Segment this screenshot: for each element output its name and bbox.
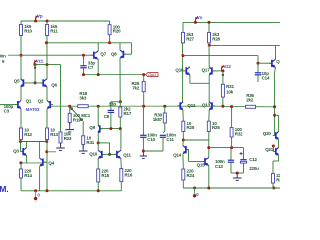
transistor Q1 — [15, 99, 32, 109]
svg-text:C12: C12 — [249, 157, 257, 162]
wire to Q18 base — [258, 62, 271, 64]
wire R20 bottom stub — [109, 35, 111, 43]
junction Vz2 node 2 — [222, 74, 224, 76]
jumper MC1 — [71, 108, 83, 121]
junction R20 bottom — [108, 41, 111, 44]
svg-text:Vz2: Vz2 — [223, 64, 231, 69]
transistor Q16 — [175, 67, 190, 75]
transistor Q2 — [38, 99, 54, 109]
wire R23 bottom stub — [60, 143, 62, 146]
wire C8 bottom stem — [110, 112, 112, 128]
resistor R23 — [59, 132, 72, 143]
wire jog to R37 — [273, 160, 279, 162]
junction C7 top — [82, 54, 85, 57]
wire C10-C11 bottom rail — [143, 150, 163, 152]
wire R14 bottom — [20, 178, 22, 191]
svg-text:Q12: Q12 — [187, 103, 196, 108]
wire Q7e down to Q9 — [97, 106, 99, 125]
transistor Q13 — [202, 102, 215, 110]
capacitor C11 — [160, 133, 177, 142]
transistor Q4 — [40, 158, 55, 166]
resistor R19 — [68, 113, 81, 123]
wire C12 bottom stem — [243, 163, 245, 173]
svg-text:Q1: Q1 — [26, 99, 32, 104]
component MC1 label — [81, 113, 91, 118]
junction R32-C13 node — [230, 146, 233, 149]
svg-text:MAT03: MAT03 — [26, 107, 40, 112]
junction Vn stem — [194, 21, 197, 24]
svg-text:Q10: Q10 — [89, 151, 98, 156]
wire R32 top stub — [231, 107, 233, 128]
transistor Q12 — [177, 102, 196, 110]
svg-text:C10: C10 — [147, 137, 155, 142]
junction R29 bottom — [142, 105, 145, 108]
transistor Q18 label — [276, 59, 280, 64]
svg-text:C8: C8 — [104, 114, 110, 119]
transistor Q17 — [202, 67, 215, 75]
capacitor C12 plus sign — [240, 152, 243, 155]
power symbol 0 left — [34, 191, 41, 201]
ground under R19 — [65, 123, 74, 132]
wire C8 top wire — [111, 101, 120, 103]
wire R16 bottom — [120, 182, 122, 191]
transistor Q20 label — [263, 131, 272, 136]
wire R17 top stub — [119, 102, 121, 107]
wire left ground rail — [21, 190, 121, 192]
svg-text:7k2: 7k2 — [132, 85, 140, 90]
wire R26 bottom — [208, 132, 210, 141]
wire Q17 base right — [213, 70, 223, 72]
svg-text:Out1: Out1 — [148, 72, 156, 77]
wire Q9 emitter down — [97, 133, 99, 143]
wire R26 to Q15 collector — [208, 140, 210, 157]
junction Q5-Q6 base rail — [34, 81, 37, 84]
svg-text:C3: C3 — [4, 109, 10, 114]
transistor Q11 — [114, 150, 132, 158]
svg-text:Q21: Q21 — [265, 147, 274, 152]
capacitor C8 ref label — [104, 114, 110, 119]
wire bias corner down — [257, 56, 259, 64]
wire C14 bottom stem — [257, 75, 259, 82]
capacitor C10 — [140, 133, 157, 142]
power symbol Vz1 — [34, 59, 44, 66]
resistor R27 — [182, 32, 195, 43]
junction Vp stem — [34, 20, 37, 23]
svg-text:R12: R12 — [24, 132, 32, 137]
wire Q8 emitter down — [119, 58, 121, 102]
power symbol Vn — [195, 15, 202, 22]
svg-text:Q3: Q3 — [13, 148, 19, 153]
svg-text:Q: Q — [276, 59, 280, 64]
transistor Q10 — [98, 150, 105, 158]
wire comp rail y147 — [209, 147, 244, 149]
junction 0 net right — [193, 187, 196, 190]
wire cap bottom rail — [231, 172, 244, 174]
svg-text:Q17: Q17 — [202, 68, 211, 73]
wire collector rail y43 — [47, 42, 132, 44]
ground under R23 — [56, 143, 65, 150]
wire out stub right — [275, 114, 279, 116]
svg-text:10k: 10k — [226, 90, 234, 95]
wire C10 bottom stem — [142, 137, 144, 151]
wire R17 bottom — [119, 117, 121, 129]
wire mirror loop down — [109, 143, 111, 155]
wire R10 to Q5 collector — [20, 36, 22, 80]
svg-text:R41: R41 — [86, 140, 94, 145]
transistor Q14 — [183, 146, 189, 154]
wire R32 bottom stub — [231, 137, 233, 148]
resistor R14 — [20, 169, 33, 178]
wire Q3 emitter rail — [21, 162, 42, 164]
wire Q8 base stub — [124, 53, 131, 55]
wire Q5 emitter to Q1 collector — [20, 87, 22, 101]
wire mirror right — [47, 151, 56, 153]
wire Q18 collector up — [275, 46, 277, 60]
wire C11 bottom stem — [162, 137, 164, 151]
svg-text:Q13: Q13 — [202, 103, 211, 108]
svg-text:100n: 100n — [215, 159, 225, 164]
transistor Q20 — [273, 131, 279, 139]
wire Vz1 down to base rail — [34, 65, 36, 83]
svg-text:R10: R10 — [24, 29, 32, 34]
junction C8 top node — [119, 100, 122, 103]
wire right tail rail — [183, 139, 209, 141]
resistor R18 — [78, 91, 88, 108]
wire Q14 emitter down — [182, 154, 184, 169]
svg-text:R11: R11 — [50, 29, 58, 34]
wire right ground rail — [183, 187, 280, 189]
wire C10 top stem — [142, 106, 144, 135]
wire Out1 rail — [84, 74, 144, 76]
junction Vz1-R11 line — [46, 63, 49, 66]
wire Q8 collector — [119, 43, 121, 50]
wire base to Q15 — [189, 161, 205, 163]
svg-text:Q6: Q6 — [51, 83, 57, 88]
svg-text:R24: R24 — [187, 173, 195, 178]
caption text M. — [0, 184, 8, 194]
power symbol 0 right — [193, 188, 199, 198]
wire feedback rail — [51, 105, 223, 107]
svg-text:R17: R17 — [124, 111, 132, 116]
resistor R15 — [97, 169, 110, 182]
transistor Q10 label — [89, 151, 98, 156]
capacitor C14 — [255, 71, 270, 80]
svg-text:Q7: Q7 — [100, 52, 106, 57]
svg-text:M.: M. — [0, 184, 8, 194]
junction Q9-Q10 node — [97, 141, 100, 144]
junction mirror base — [108, 153, 111, 156]
global label Out1 — [146, 72, 158, 77]
wire Q7 collector — [97, 43, 99, 51]
wire Q14 base down — [188, 150, 190, 162]
wire input to Q1 base — [0, 104, 17, 106]
resistor R30 — [153, 113, 167, 123]
wire bias rail y57 — [183, 55, 258, 57]
svg-text:R31: R31 — [226, 84, 234, 89]
wire Q17 emitter down — [208, 75, 210, 103]
svg-text:Q15: Q15 — [197, 162, 206, 167]
wire top rail y45 — [209, 45, 280, 47]
transistor Q15 label — [197, 162, 206, 167]
junction out node — [273, 105, 276, 108]
svg-text:2k2: 2k2 — [246, 97, 254, 102]
wire R10 top stub — [20, 21, 22, 25]
junction tail right ch — [182, 139, 185, 142]
transistor Q14 label — [173, 153, 182, 158]
junction R11 bottom rail — [45, 41, 48, 44]
junction 0 net left — [34, 189, 37, 192]
wire Q7 emitter down — [97, 59, 99, 74]
junction Q7e-Q9 line — [97, 105, 100, 108]
wire Q9 base right — [101, 128, 121, 130]
transistor Q15 — [202, 157, 209, 165]
junction R32 top — [230, 105, 233, 108]
junction R31 rail — [221, 105, 224, 108]
wire R14 top stub — [20, 163, 22, 169]
svg-text:R32: R32 — [235, 132, 243, 137]
junction Q4 base node — [45, 150, 48, 153]
wire shared emitter rail — [190, 82, 209, 84]
junction C14 top — [257, 62, 260, 65]
svg-text:C7: C7 — [88, 65, 94, 70]
wire Q15 emitter down — [208, 166, 210, 188]
transistor Q6 — [40, 79, 57, 88]
svg-text:R27: R27 — [186, 36, 194, 41]
resistor R11 — [46, 24, 59, 35]
wire R24 bottom — [182, 180, 184, 188]
resistor R25 — [182, 121, 195, 132]
capacitor C8 — [108, 102, 117, 113]
wire Q12 emitter down — [182, 110, 184, 121]
svg-text:Q2: Q2 — [38, 99, 44, 104]
junction R19 top — [68, 105, 71, 108]
svg-text:C11: C11 — [166, 137, 174, 142]
svg-text:33p: 33p — [109, 102, 117, 107]
wire Q20-Q21 link — [278, 139, 280, 147]
transistor Q9 label — [89, 125, 95, 130]
wire Q10 collector up — [97, 143, 99, 150]
resistor R26 — [207, 121, 220, 132]
resistor R31 — [221, 84, 234, 97]
wire Vz1 branch down to R23 — [60, 65, 62, 132]
transistor Q18 — [269, 59, 276, 67]
wire Q3 collector up — [26, 142, 28, 148]
wire Q5-Q6 base rail — [24, 82, 42, 84]
transistor Q5 — [14, 79, 27, 87]
transistor Q21 — [273, 147, 279, 155]
wire Q14 base stub — [187, 149, 189, 151]
wire R12-R13 tail — [21, 141, 48, 143]
wire Q18 emitter down — [274, 68, 277, 73]
wire R29 top stub — [143, 75, 145, 82]
wire R27 bottom down — [182, 43, 184, 103]
transistor Q3 — [13, 148, 26, 156]
svg-text:Q4: Q4 — [48, 160, 54, 165]
wire Q3 emitter down — [26, 156, 28, 163]
wire tail to Q14 — [182, 140, 184, 146]
svg-text:Vp: Vp — [37, 13, 43, 18]
junction Q21 base — [272, 145, 275, 148]
ground under R41 — [79, 145, 88, 154]
transistor Q21 label — [265, 147, 274, 152]
wire R28 to Q17 collector — [208, 43, 210, 67]
wire R13 down — [46, 140, 48, 163]
wire R19 bottom stub — [69, 123, 71, 126]
resistor R13 — [46, 128, 59, 140]
wire Q10 emitter down — [97, 159, 99, 170]
wire Q5-node to Q7 base — [21, 54, 93, 56]
svg-text:C13: C13 — [215, 164, 223, 169]
resistor R28 — [208, 32, 221, 43]
transistor Q8 — [111, 50, 126, 58]
junction Vz1 node 2 — [34, 67, 36, 69]
junction R27 node — [182, 54, 185, 57]
svg-text:C14: C14 — [262, 75, 270, 80]
wire C8 top stem — [110, 102, 112, 111]
junction C7 bottom — [82, 73, 85, 76]
capacitor C7 — [80, 60, 95, 69]
transistor Q9 — [98, 125, 103, 133]
svg-text:00n: 00n — [0, 53, 6, 58]
wire Q1 emitter to R12 — [20, 109, 22, 128]
wire R20 top stub — [109, 21, 111, 25]
wire R15 bottom — [97, 182, 99, 191]
resistor R41 — [82, 135, 95, 144]
wire R11 top stub — [46, 21, 48, 25]
svg-text:Q20: Q20 — [263, 131, 272, 136]
svg-text:R20: R20 — [113, 29, 121, 34]
wire mirror loop top — [98, 142, 109, 144]
junction out stub — [273, 114, 276, 117]
svg-text:Vn: Vn — [197, 15, 203, 20]
svg-text:R26: R26 — [212, 125, 220, 130]
wire C11 jog — [163, 131, 165, 133]
wire Vn rail — [183, 21, 280, 23]
svg-text:R23: R23 — [64, 136, 72, 141]
svg-text:220u: 220u — [249, 166, 259, 171]
capacitor C12 electrolytic — [240, 157, 259, 171]
junction Q4 rail — [46, 189, 49, 192]
wire Q11 collector up — [120, 129, 122, 151]
wire Q21 emitter down — [278, 155, 280, 161]
transistor Q7 — [91, 51, 107, 59]
junction Vz1 node — [34, 63, 37, 66]
capacitor C13 — [215, 159, 234, 169]
wire C13 bottom stem — [230, 162, 232, 173]
resistor R32 — [230, 127, 243, 137]
power symbol Vp — [35, 13, 42, 20]
junction Q7 emitter — [97, 73, 100, 76]
resistor R10 — [20, 24, 33, 35]
svg-text:1k87: 1k87 — [153, 117, 163, 122]
wire R41 bottom stub — [82, 144, 84, 148]
junction C8 bottom — [109, 127, 112, 130]
wire output rail right — [274, 72, 276, 136]
ground under caps — [233, 173, 242, 180]
resistor R24 — [182, 169, 195, 180]
junction tail right — [45, 140, 48, 143]
svg-text:R28: R28 — [212, 36, 220, 41]
wire C9 stub left — [8, 54, 21, 56]
wire R31 bottom — [222, 97, 224, 106]
svg-text:Q11: Q11 — [123, 153, 131, 158]
svg-text:Q9: Q9 — [89, 125, 95, 130]
svg-text:Q5: Q5 — [14, 79, 20, 84]
wire R37 top stub — [272, 161, 274, 174]
wire Vp rail — [21, 20, 110, 22]
capacitor C9 label (clipped) — [0, 53, 6, 63]
wire Q13 emitter down — [208, 110, 210, 121]
junction R37 rail — [272, 187, 275, 190]
svg-text:Q16: Q16 — [175, 68, 184, 73]
svg-text:R25: R25 — [187, 125, 195, 130]
svg-text:3k3: 3k3 — [79, 95, 87, 100]
junction R11 top — [46, 20, 49, 23]
junction Vz2 node — [221, 69, 224, 72]
wire Q4 net down — [46, 162, 48, 191]
wire Q21 base stub — [272, 146, 274, 151]
resistor R29 — [131, 81, 145, 92]
wire Vz1 to R23 branch — [35, 64, 60, 66]
power symbol Vz2 — [221, 64, 231, 71]
wire C13 top stem — [230, 148, 232, 161]
junction R28 bottom rail — [208, 44, 211, 47]
wire R30 top stub — [164, 106, 166, 113]
svg-text:R13: R13 — [50, 132, 58, 137]
junction R17 bottom — [119, 127, 122, 130]
component MAT03 label — [26, 107, 40, 112]
wire Q4 base stub — [44, 161, 47, 163]
wire R29 bottom — [143, 92, 145, 107]
wire R19 top stub — [69, 106, 71, 113]
wire Q11 emitter down — [120, 159, 122, 169]
junction C10 ground node — [142, 150, 145, 153]
svg-text:Q8: Q8 — [111, 52, 117, 57]
wire Vz2 down to R31 — [222, 71, 224, 84]
wire C12 top stem — [243, 148, 245, 160]
wire C14 top stem — [257, 63, 259, 73]
wire C7 top stem — [83, 55, 85, 66]
junction R30 top — [163, 105, 166, 108]
wire Q8 base loop down — [131, 43, 133, 54]
junction tail left — [19, 140, 22, 143]
wire R37 bottom — [272, 183, 274, 188]
wire R28 top stub — [208, 22, 210, 32]
wire Q20 col up — [278, 115, 280, 131]
junction cap ground — [236, 172, 239, 175]
capacitor C3 label — [4, 104, 14, 113]
wire Q2 emitter to R13 — [46, 109, 48, 128]
svg-text:R15: R15 — [101, 173, 109, 178]
wire C7 bottom stem — [83, 68, 85, 75]
wire Q10-Q11 base rail — [103, 153, 116, 155]
wire Q4 emitter down — [39, 166, 41, 191]
svg-text:R16: R16 — [125, 173, 133, 178]
svg-text:MC1: MC1 — [81, 113, 91, 118]
wire Q16 emitter down — [189, 75, 191, 83]
junction R15 rail — [97, 189, 100, 192]
wire R27 top stub — [182, 22, 184, 32]
svg-text:Vz1: Vz1 — [36, 59, 44, 64]
resistor R17 — [119, 107, 132, 117]
junction Q15 rail — [207, 187, 210, 190]
wire Q4 collector up — [39, 142, 41, 159]
wire feedback rail right — [223, 105, 275, 107]
resistor R36 — [246, 93, 256, 108]
resistor R20 — [108, 24, 121, 34]
svg-text:R3: R3 — [276, 178, 280, 183]
resistor R12 — [20, 128, 33, 140]
